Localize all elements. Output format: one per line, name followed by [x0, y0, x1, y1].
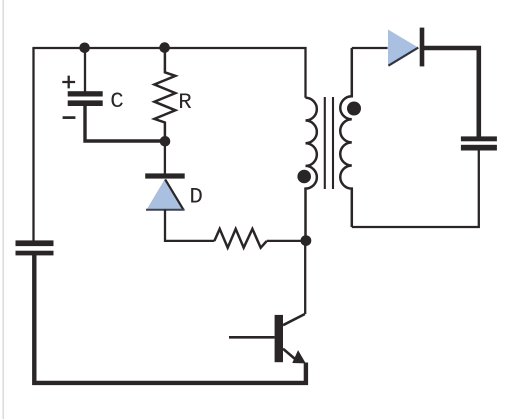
- wire: secondary top to output diode anode: [352, 47, 388, 49]
- svg-text:D: D: [189, 183, 203, 209]
- transistor Q1 base lead: [229, 336, 275, 339]
- wire: node C down to diode D cathode: [164, 141, 166, 174]
- diode (output rectifier) triangle: [388, 30, 418, 66]
- resistor R (vertical zigzag): [154, 48, 175, 141]
- node B (top rail / resistor R): [159, 42, 170, 53]
- node C (R bottom / cap C / diode D): [160, 136, 171, 147]
- transistor Q1 emitter lead: [283, 349, 297, 361]
- wire: cap C bottom lead to node C (thicker): [85, 106, 165, 142]
- wire: collector up to node D: [304, 240, 306, 314]
- polarity dot primary: [297, 170, 311, 184]
- resistor (base drive, horizontal zigzag): [214, 229, 266, 248]
- transformer core: [325, 97, 333, 189]
- transistor Q1 emitter arrowhead: [293, 351, 305, 363]
- wire: cap C top lead: [84, 48, 86, 92]
- minus sign (cap C polarity): [63, 116, 76, 119]
- wire: left rail top (thin) from top-left corner down to input cap: [32, 48, 34, 241]
- node D (primary bottom / base resistor / collector): [301, 235, 312, 246]
- wire: diode D anode down and right to base resistor: [165, 210, 214, 241]
- plus sign (cap C polarity): [62, 76, 75, 89]
- node A (top rail / cap C): [79, 43, 90, 54]
- diode D cathode bar: [145, 173, 185, 178]
- transistor Q1 base bar: [275, 315, 283, 362]
- diode (output rectifier) cathode bar: [420, 28, 425, 67]
- wire: top rail with primary top stub: [32, 48, 305, 98]
- transformer T1 secondary winding: [340, 48, 352, 227]
- capacitor C plates: [68, 91, 103, 106]
- wire: output diode to output cap (thick): [424, 48, 479, 137]
- svg-text:R: R: [178, 89, 192, 115]
- wire: input cap bottom / bottom rail / emitter return (thick): [34, 255, 306, 383]
- page edge artifact line: [2, 0, 4, 419]
- diode D triangle (anode, pointing up): [146, 179, 185, 210]
- polarity dot secondary: [347, 102, 361, 116]
- capacitor (input) plates: [16, 240, 54, 255]
- svg-text:C: C: [110, 88, 124, 114]
- wire: output cap bottom around to secondary bottom: [352, 150, 479, 227]
- transistor Q1 collector lead: [283, 314, 305, 325]
- capacitor (output) plates: [461, 136, 497, 150]
- transformer T1 primary winding: [306, 98, 317, 240]
- wire: base resistor to node D: [267, 240, 306, 242]
